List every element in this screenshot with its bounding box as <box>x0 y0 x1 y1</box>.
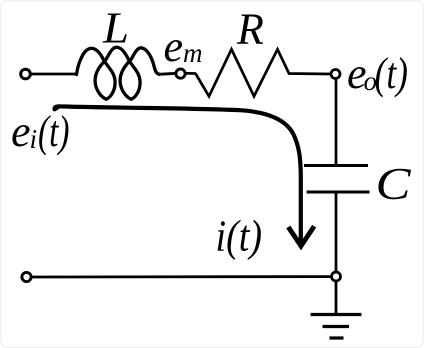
svg-text:i: i <box>30 124 38 154</box>
svg-text:e: e <box>11 107 31 156</box>
svg-text:(t): (t) <box>38 107 70 156</box>
svg-text:C: C <box>376 158 412 209</box>
svg-text:L: L <box>102 4 129 53</box>
svg-text:m: m <box>183 38 203 68</box>
svg-text:R: R <box>236 5 264 54</box>
svg-text:e: e <box>164 22 184 71</box>
svg-text:i(t): i(t) <box>216 212 263 261</box>
svg-text:(t): (t) <box>375 49 409 98</box>
